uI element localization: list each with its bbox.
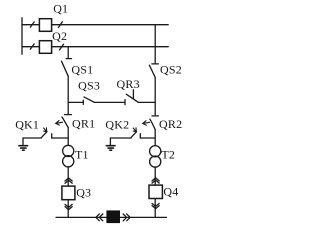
wire: QK2 ground branch left segment: [110, 137, 131, 139]
wire: QR1 to T1: [67, 128, 69, 146]
svg-text:T1: T1: [75, 147, 89, 161]
disconnector QS2 blade: [149, 65, 155, 77]
wire: QK2 branch to right feeder: [140, 137, 155, 139]
wire: left feeder drop from W2 to QS1: [67, 47, 69, 58]
ground bar 1 of QK1: [19, 145, 28, 147]
wire: QK1 ground branch left segment: [23, 137, 41, 139]
wire: QR2 to T2: [154, 130, 156, 146]
transformer T1 primary winding: [63, 145, 74, 156]
short-circuiter QK1 ground stem: [22, 138, 24, 145]
svg-text:QR3: QR3: [117, 77, 140, 91]
breaker Q4: [149, 185, 162, 198]
transformer T2 primary winding: [150, 146, 161, 157]
bottom bus line: [56, 216, 167, 218]
wire: right feeder drop from W1 to QS2: [154, 25, 156, 63]
svg-text:QR2: QR2: [159, 117, 182, 131]
drawout slash left of Q2: [30, 44, 34, 49]
transformer T2 secondary winding: [150, 156, 161, 167]
short-circuiter QK1 closing arrow: [44, 128, 47, 132]
connector arrows below Q3: [65, 204, 72, 209]
sectionalizer QR1 blade: [62, 117, 68, 128]
svg-text:QR1: QR1: [72, 116, 95, 130]
sectionalizer QR1 trip arrow: [56, 121, 63, 126]
connector arrows above Q3: [65, 178, 72, 183]
wire: right feeder QS2 to QR2: [154, 77, 156, 115]
breaker Q2: [39, 41, 51, 54]
transformer T1 secondary winding: [63, 156, 74, 167]
svg-text:Q1: Q1: [53, 2, 68, 16]
svg-text:QS3: QS3: [78, 79, 100, 93]
short-circuiter QK2 blade: [131, 132, 137, 138]
wire: Q4 to bottom bus: [154, 199, 156, 218]
disconnector QR3 blade: [126, 94, 138, 102]
svg-text:T2: T2: [161, 148, 175, 162]
svg-text:QK2: QK2: [105, 117, 129, 131]
breaker Q1: [39, 19, 51, 32]
busbar W2 (second supply line): [22, 46, 168, 48]
svg-text:Q3: Q3: [76, 185, 91, 199]
connector arrows left of load box: [96, 214, 103, 221]
wire: tie line middle segment: [94, 101, 124, 103]
short-circuiter QK1 fixed contact: [51, 134, 53, 138]
breaker Q3: [62, 186, 75, 200]
drawout slash left of Q1: [30, 22, 34, 27]
leader line from label QR3 to blade: [132, 90, 134, 99]
drawout slash right of Q1: [58, 22, 62, 28]
disconnector QS2 fixed contact: [152, 63, 159, 65]
disconnector QS1 blade: [62, 61, 69, 76]
svg-text:Q2: Q2: [52, 29, 67, 43]
disconnector QR3 fixed contact: [124, 100, 126, 105]
short-circuiter QK2 closing arrow: [133, 128, 136, 132]
svg-text:QS2: QS2: [160, 62, 182, 76]
drawout slash right of Q2: [60, 44, 64, 50]
sectionalizer QR2 fixed contact: [152, 115, 158, 117]
ground bar 3 of QK1: [23, 149, 25, 151]
connector arrows right of load box: [123, 214, 130, 221]
connector arrows below Q4: [152, 203, 159, 208]
disconnector QS1 fixed contact: [66, 58, 71, 60]
svg-text:QS1: QS1: [71, 63, 93, 77]
short-circuiter QK1 blade: [41, 132, 47, 138]
short-circuiter QK2 ground stem: [109, 138, 111, 145]
load box (filled): [106, 210, 120, 223]
disconnector QS3 blade: [84, 97, 94, 102]
disconnector QS3 fixed contact: [82, 100, 84, 104]
sectionalizer QR1 fixed contact: [65, 114, 72, 116]
wire: Q3 to bottom bus: [67, 200, 69, 218]
connector arrows above Q4: [152, 178, 159, 183]
ground bar 2 of QK1: [21, 147, 26, 149]
svg-text:QK1: QK1: [15, 117, 39, 131]
wire: tie line left segment: [68, 101, 83, 103]
short-circuiter QK2 fixed contact: [139, 134, 141, 138]
left terminal bar of busbars: [21, 18, 23, 54]
sectionalizer QR2 trip arrow: [143, 121, 150, 126]
ground bar 2 of QK2: [108, 147, 113, 149]
ground bar 1 of QK2: [106, 145, 115, 147]
sectionalizer QR2 blade: [150, 119, 155, 130]
wire: T1 to Q3: [67, 167, 69, 186]
ground bar 3 of QK2: [110, 149, 112, 151]
wire: QK1 branch to left feeder: [52, 137, 68, 139]
busbar W1 (top supply line): [22, 24, 168, 26]
wire: tie line right segment: [139, 101, 156, 103]
wire: T2 to Q4: [154, 167, 156, 185]
wire: left feeder QS1 to QR1: [67, 76, 69, 114]
svg-text:Q4: Q4: [163, 184, 178, 198]
